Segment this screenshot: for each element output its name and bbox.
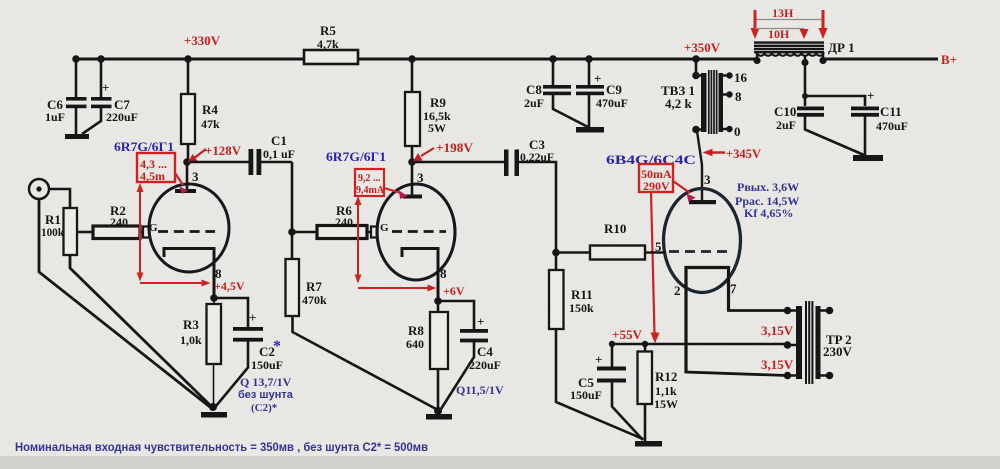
capacitor C4	[438, 301, 501, 409]
ground under R8	[426, 407, 452, 420]
resistor R1	[41, 208, 77, 255]
node V1 cathode junction	[210, 294, 218, 302]
node V1 anode junction	[183, 158, 191, 166]
svg-text:1,0k: 1,0k	[180, 333, 202, 347]
measure box V2 9,2-9,4mA	[355, 169, 385, 196]
svg-text:+128V: +128V	[205, 143, 242, 158]
node C8 top	[549, 55, 557, 63]
svg-text:240: 240	[335, 215, 353, 229]
measure arrow vertical V1	[137, 183, 144, 282]
svg-text:R8: R8	[408, 323, 424, 338]
tube V3 filament	[686, 268, 729, 374]
svg-text:+55V: +55V	[612, 327, 643, 342]
wire B+ rail right	[823, 58, 938, 61]
svg-text:+: +	[595, 352, 602, 367]
svg-text:R5: R5	[320, 23, 336, 38]
node TVZ1 top	[692, 55, 700, 63]
resistor R11	[549, 252, 643, 439]
measure box V1 4,3-4,5m	[137, 153, 175, 183]
capacitor C7	[82, 59, 138, 134]
resistor R9	[405, 59, 451, 162]
resistor R6	[317, 203, 367, 239]
capacitor C5	[570, 344, 643, 440]
node R12 top	[642, 341, 648, 347]
svg-text:Рвых. 3,6W: Рвых. 3,6W	[737, 180, 799, 194]
wire TVZ1 to anode V3	[697, 131, 702, 200]
svg-text:3: 3	[192, 169, 199, 184]
input jack	[29, 179, 49, 199]
node V2 anode junction	[408, 158, 416, 166]
svg-text:+350V: +350V	[684, 40, 721, 55]
resistor R8	[406, 301, 448, 411]
label +128V with arrow	[188, 143, 242, 163]
ground under C9	[576, 127, 604, 133]
svg-text:Q11,5/1V: Q11,5/1V	[456, 383, 504, 397]
capacitor C8	[524, 59, 589, 128]
resistor R7	[286, 232, 439, 410]
svg-text:7: 7	[730, 281, 737, 296]
measure arrow vertical V2	[355, 196, 362, 284]
label +198V with arrow	[413, 140, 474, 162]
node R6 R7 junction	[288, 228, 296, 236]
svg-text:G: G	[380, 222, 389, 234]
svg-text:220uF: 220uF	[106, 110, 138, 124]
svg-text:1uF: 1uF	[45, 110, 65, 124]
measure arrow box to anode V2	[384, 188, 408, 199]
svg-text:16: 16	[734, 70, 748, 85]
svg-text:R7: R7	[306, 279, 322, 294]
svg-text:150uF: 150uF	[251, 358, 283, 372]
svg-text:Q 13,7/1V: Q 13,7/1V	[240, 375, 292, 389]
transformer TP2	[784, 301, 853, 384]
svg-text:640: 640	[406, 337, 424, 351]
wire jack to R1	[49, 189, 70, 208]
svg-text:ДР 1: ДР 1	[828, 40, 855, 55]
capacitor C10	[774, 62, 864, 155]
svg-text:1,1k: 1,1k	[655, 384, 677, 398]
svg-text:R9: R9	[430, 95, 446, 110]
resistor R3	[180, 298, 221, 408]
svg-text:220uF: 220uF	[469, 358, 501, 372]
svg-text:15W: 15W	[654, 397, 678, 411]
svg-text:4,2 k: 4,2 k	[665, 96, 693, 111]
svg-text:4,7k: 4,7k	[317, 37, 339, 51]
svg-text:47k: 47k	[201, 117, 220, 131]
choke DR1	[753, 40, 854, 66]
node R9 top	[408, 55, 416, 63]
wire R1 to R2	[77, 231, 93, 234]
svg-text:G: G	[149, 222, 158, 234]
label +345V with arrow	[703, 146, 762, 161]
svg-text:0,1 uF: 0,1 uF	[263, 147, 295, 161]
svg-text:без шунта: без шунта	[238, 389, 294, 401]
node C5 top	[609, 341, 615, 347]
measure arrow horizontal to +6V	[358, 285, 437, 292]
svg-text:470uF: 470uF	[876, 119, 908, 133]
svg-text:+: +	[102, 80, 109, 95]
svg-text:+4,5V: +4,5V	[214, 279, 245, 293]
svg-text:+345V: +345V	[726, 146, 762, 161]
svg-text:3: 3	[704, 172, 711, 187]
svg-text:+6V: +6V	[443, 284, 465, 298]
measure 10H bracket	[755, 27, 809, 41]
svg-text:3,15V: 3,15V	[761, 357, 794, 372]
svg-text:+: +	[477, 314, 484, 329]
node C9 top	[585, 55, 593, 63]
svg-text:+198V: +198V	[436, 140, 474, 155]
capacitor C11	[805, 88, 908, 155]
svg-text:Номинальная входная чувствител: Номинальная входная чувствительность = 3…	[15, 440, 428, 454]
measure 13H bracket	[751, 6, 828, 39]
ground under C6 C7	[65, 134, 89, 139]
node V2 cathode junction	[434, 297, 442, 305]
wire C1 to R6 R7 junction	[291, 162, 294, 232]
node R10 R11 junction	[552, 249, 560, 257]
tube V2 cathode	[402, 249, 438, 302]
wire junction to R6	[292, 231, 317, 234]
svg-text:6R7G/6Г1: 6R7G/6Г1	[114, 139, 174, 154]
measure arrow box to anode V1	[175, 173, 188, 194]
svg-text:6R7G/6Г1: 6R7G/6Г1	[326, 149, 386, 164]
wire jack sleeve to ground	[39, 199, 210, 407]
tube V3 envelope	[664, 189, 741, 293]
node C6 top	[72, 55, 80, 63]
svg-text:2uF: 2uF	[776, 118, 796, 132]
svg-text:8: 8	[440, 266, 447, 281]
svg-text:3: 3	[417, 170, 424, 185]
capacitor C3	[415, 137, 556, 252]
tube V2 grid dashes	[392, 230, 446, 233]
svg-text:9,2 ...: 9,2 ...	[358, 173, 381, 184]
svg-text:C9: C9	[606, 82, 622, 97]
tube V2 anode	[403, 162, 422, 199]
svg-text:470k: 470k	[302, 293, 327, 307]
resistor R4	[181, 59, 220, 162]
svg-text:240: 240	[110, 215, 128, 229]
resistor R2	[93, 203, 140, 239]
svg-text:150uF: 150uF	[570, 388, 602, 402]
wire pin2 to TP2	[686, 268, 787, 376]
svg-text:Kf 4,65%: Kf 4,65%	[744, 206, 793, 220]
wire rail to TVZ1	[695, 59, 698, 76]
svg-text:R11: R11	[571, 287, 593, 302]
resistor R12	[638, 344, 679, 441]
capacitor C2	[214, 298, 283, 406]
grid feedthrough V2	[367, 227, 378, 238]
svg-text:B+: B+	[941, 52, 957, 67]
svg-text:3,15V: 3,15V	[761, 323, 794, 338]
svg-text:+: +	[594, 71, 601, 86]
tube V2 envelope	[377, 184, 455, 280]
ground main left	[201, 403, 227, 418]
tube V1 cathode	[164, 249, 214, 299]
svg-text:2: 2	[674, 283, 681, 298]
svg-text:+330V: +330V	[184, 33, 221, 48]
svg-text:*: *	[273, 338, 281, 355]
svg-text:R3: R3	[183, 317, 199, 332]
svg-text:8: 8	[735, 89, 742, 104]
svg-text:C8: C8	[526, 82, 542, 97]
svg-text:(С2)*: (С2)*	[251, 402, 278, 414]
measure arrow horizontal to +4,5V	[140, 280, 211, 287]
wire +55V node	[610, 343, 787, 346]
resistor R5	[304, 23, 358, 64]
svg-text:100k: 100k	[41, 225, 64, 239]
tube V3 anode	[689, 200, 716, 204]
capacitor C6	[45, 59, 87, 134]
measure line box to +55V	[651, 192, 660, 344]
svg-text:C4: C4	[477, 344, 493, 359]
svg-text:2uF: 2uF	[524, 96, 544, 110]
ground under R12	[635, 441, 662, 447]
svg-text:C1: C1	[271, 133, 287, 148]
tube V1 envelope	[149, 184, 229, 272]
svg-text:10Н: 10Н	[768, 27, 790, 41]
measure arrow box to anode V3	[673, 181, 696, 202]
transformer TVZ1	[661, 70, 748, 139]
svg-text:+: +	[249, 310, 256, 325]
capacitor C1	[190, 133, 295, 175]
grid feedthrough V1	[140, 227, 150, 238]
svg-text:+: +	[867, 88, 874, 103]
wire pin7 to TP2	[729, 268, 788, 311]
wire R1 bottom to ground	[70, 255, 211, 406]
svg-text:R10: R10	[604, 221, 626, 236]
svg-text:13Н: 13Н	[772, 6, 794, 20]
svg-text:290V: 290V	[643, 179, 670, 193]
svg-text:C10: C10	[774, 104, 796, 119]
svg-text:0: 0	[734, 124, 741, 139]
resistor R10	[556, 221, 665, 260]
measure box V3 50mA 290V	[639, 164, 673, 193]
svg-text:230V: 230V	[823, 344, 853, 359]
svg-text:4,5m: 4,5m	[140, 169, 165, 183]
node R4 top	[184, 55, 192, 63]
svg-text:C11: C11	[880, 104, 902, 119]
tube V1 anode	[175, 162, 196, 193]
node C7 top	[97, 55, 105, 63]
svg-text:R4: R4	[202, 102, 218, 117]
ground under C11	[853, 155, 883, 161]
capacitor C9	[576, 59, 628, 127]
svg-text:9,4mA: 9,4mA	[356, 185, 385, 196]
svg-text:R12: R12	[655, 369, 677, 384]
tube V1 grid dashes	[158, 230, 215, 233]
wire +330V rail left	[76, 58, 757, 61]
svg-text:0,22uF: 0,22uF	[520, 150, 554, 164]
svg-text:150k: 150k	[569, 301, 594, 315]
svg-text:470uF: 470uF	[596, 96, 628, 110]
tube V3 grid dashes	[669, 250, 729, 253]
svg-text:5W: 5W	[428, 121, 446, 135]
